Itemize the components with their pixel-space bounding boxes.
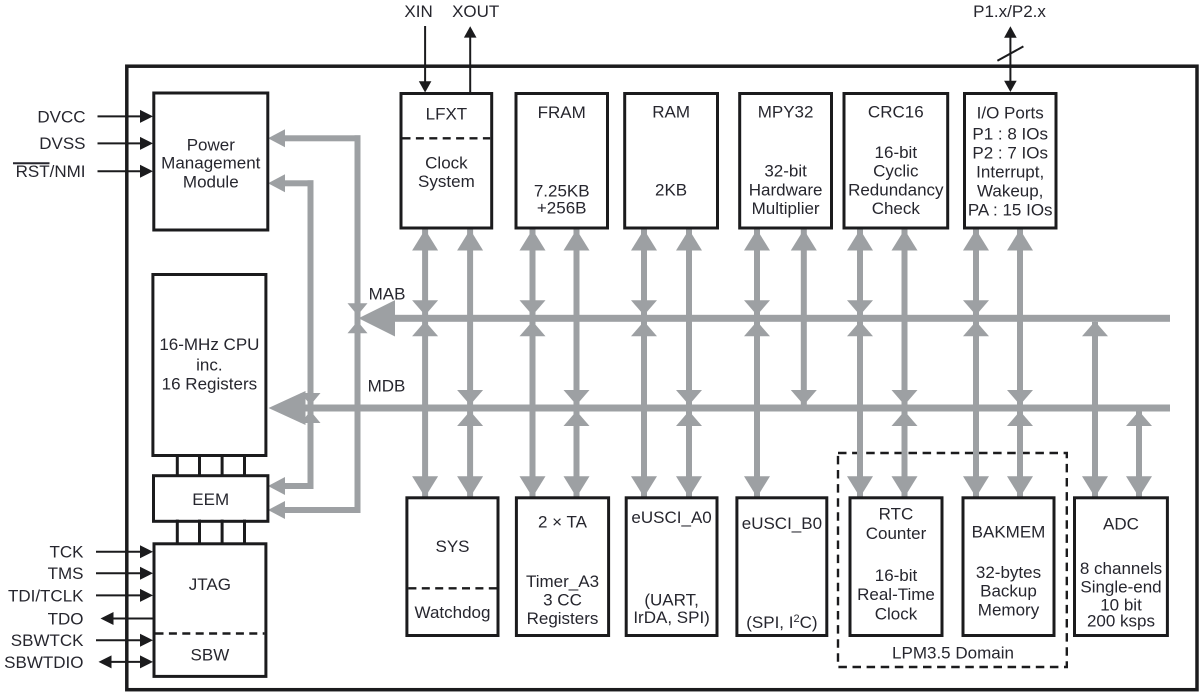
svg-text:FRAM: FRAM: [538, 103, 586, 122]
svg-text:TDI/TCLK: TDI/TCLK: [8, 586, 84, 605]
block eUSCI_B0: [737, 498, 827, 636]
block RTC Counter: [850, 498, 942, 636]
block JTAG / SBW: [154, 544, 266, 677]
svg-text:SBWTCK: SBWTCK: [11, 631, 84, 650]
wire FRAM/TimerA right riser: [574, 228, 580, 498]
svg-text:BAKMEM: BAKMEM: [972, 523, 1046, 542]
svg-text:Timer_A3: Timer_A3: [526, 572, 599, 591]
block BAKMEM: [963, 498, 1054, 636]
wire EEM-JTAG pins: [176, 520, 179, 546]
svg-text:RTC: RTC: [879, 504, 914, 523]
svg-text:2 × TA: 2 × TA: [538, 512, 588, 531]
wire ADC right riser: [1136, 412, 1142, 498]
block CPU: [153, 275, 266, 456]
svg-text:eUSCI_A0: eUSCI_A0: [631, 508, 711, 527]
svg-text:MAB: MAB: [369, 285, 406, 304]
bus MDB: [305, 405, 1170, 412]
wire MPY32/eUSCI_B0 left riser: [754, 228, 760, 498]
svg-text:SBWTDIO: SBWTDIO: [4, 653, 83, 672]
svg-text:XOUT: XOUT: [452, 2, 499, 21]
svg-text:16-bit: 16-bit: [875, 143, 918, 162]
svg-text:(UART,: (UART,: [644, 590, 698, 609]
svg-text:Memory: Memory: [978, 600, 1040, 619]
svg-text:Module: Module: [183, 172, 239, 191]
wire FRAM/TimerA left riser: [530, 228, 536, 498]
block FRAM: [516, 94, 608, 229]
bus MAB: [394, 315, 1170, 322]
svg-text:16 Registers: 16 Registers: [162, 375, 257, 394]
svg-text:MDB: MDB: [368, 377, 406, 396]
svg-text:XIN: XIN: [404, 2, 432, 21]
svg-text:32-bytes: 32-bytes: [976, 563, 1041, 582]
wire LFXT/SYS right riser: [467, 228, 473, 498]
svg-text:Cyclic: Cyclic: [873, 162, 919, 181]
svg-text:JTAG: JTAG: [189, 575, 231, 594]
svg-text:RAM: RAM: [652, 102, 690, 121]
svg-text:CRC16: CRC16: [868, 102, 924, 121]
svg-text:Counter: Counter: [866, 524, 927, 543]
svg-text:Redundancy: Redundancy: [848, 180, 944, 199]
block LFXT / Clock System: [401, 94, 492, 229]
svg-text:8 channels: 8 channels: [1080, 559, 1162, 578]
svg-text:200 ksps: 200 ksps: [1087, 611, 1155, 630]
wire RAM/eUSCI_A0 left riser: [641, 228, 647, 498]
wire IOports/BAKMEM left riser: [973, 228, 979, 498]
block MPY32: [740, 94, 832, 229]
svg-text:Backup: Backup: [980, 581, 1037, 600]
svg-text:Power: Power: [187, 135, 236, 154]
svg-text:inc.: inc.: [196, 356, 222, 375]
wire IOports/BAKMEM right riser: [1017, 228, 1023, 498]
svg-text:P2 : 7 IOs: P2 : 7 IOs: [972, 143, 1048, 162]
svg-text:Check: Check: [872, 199, 921, 218]
LPM3.5 Domain boundary: [838, 453, 1067, 667]
svg-text:32-bit: 32-bit: [764, 162, 807, 181]
svg-text:RST/NMI: RST/NMI: [16, 162, 86, 181]
block SYS / Watchdog: [407, 498, 498, 636]
svg-text:Hardware: Hardware: [749, 180, 823, 199]
block Power Management Module: [154, 93, 268, 230]
svg-text:Clock: Clock: [425, 153, 468, 172]
svg-text:eUSCI_B0: eUSCI_B0: [742, 514, 822, 533]
svg-text:PA : 15 IOs: PA : 15 IOs: [968, 200, 1053, 219]
svg-text:ADC: ADC: [1103, 514, 1139, 533]
svg-text:TDO: TDO: [48, 609, 84, 628]
svg-text:TMS: TMS: [48, 564, 84, 583]
svg-text:3 CC: 3 CC: [543, 590, 582, 609]
svg-text:Wakeup,: Wakeup,: [977, 181, 1043, 200]
wire CRC16/RTC left riser: [857, 228, 863, 498]
svg-text:Management: Management: [161, 154, 261, 173]
wire gray riser A (PMM/EEM to MAB): [355, 135, 361, 513]
wire LFXT/SYS left riser: [422, 228, 428, 498]
svg-text:Registers: Registers: [527, 609, 599, 628]
wire MPY32/eUSCI_B0 right riser: [801, 228, 807, 405]
svg-text:Single-end: Single-end: [1080, 577, 1161, 596]
svg-text:SYS: SYS: [435, 537, 469, 556]
svg-text:Clock: Clock: [875, 605, 918, 624]
wire ADC left riser: [1092, 322, 1098, 498]
bus-width slash on P1/P2 pin: [997, 46, 1023, 60]
svg-text:P1 : 8 IOs: P1 : 8 IOs: [972, 124, 1048, 143]
svg-text:P1.x/P2.x: P1.x/P2.x: [973, 2, 1046, 21]
svg-text:+256B: +256B: [537, 198, 587, 217]
svg-text:DVCC: DVCC: [37, 107, 85, 126]
svg-text:EEM: EEM: [192, 490, 229, 509]
wire CRC16/RTC right riser: [902, 228, 908, 498]
wire CPU-EEM pins: [176, 454, 179, 477]
svg-text:Multiplier: Multiplier: [752, 199, 820, 218]
block CRC16: [844, 94, 948, 229]
block 2xTA Timer_A3: [516, 498, 608, 636]
block ADC: [1075, 498, 1168, 636]
svg-text:(SPI, I2C): (SPI, I2C): [746, 613, 817, 632]
svg-text:Interrupt,: Interrupt,: [976, 162, 1044, 181]
svg-text:I/O Ports: I/O Ports: [977, 103, 1044, 122]
svg-text:IrDA, SPI): IrDA, SPI): [633, 608, 710, 627]
svg-text:16-bit: 16-bit: [875, 566, 918, 585]
block eUSCI_A0: [626, 498, 717, 636]
svg-text:Real-Time: Real-Time: [857, 585, 935, 604]
wire gray riser B (PMM/EEM to MDB): [308, 180, 314, 489]
svg-text:16-MHz CPU: 16-MHz CPU: [159, 335, 259, 354]
svg-text:LFXT: LFXT: [426, 104, 468, 123]
svg-text:LPM3.5 Domain: LPM3.5 Domain: [892, 643, 1014, 662]
svg-text:SBW: SBW: [191, 645, 230, 664]
block I/O Ports: [965, 94, 1057, 229]
svg-text:Watchdog: Watchdog: [415, 603, 491, 622]
svg-text:MPY32: MPY32: [758, 102, 814, 121]
block EEM: [154, 476, 268, 522]
svg-text:2KB: 2KB: [655, 180, 687, 199]
block RAM: [625, 94, 718, 229]
svg-text:TCK: TCK: [50, 543, 85, 562]
wire RAM/eUSCI_A0 right riser: [686, 228, 692, 498]
svg-text:System: System: [418, 172, 475, 191]
svg-text:DVSS: DVSS: [39, 134, 85, 153]
outer device boundary: [127, 66, 1197, 690]
